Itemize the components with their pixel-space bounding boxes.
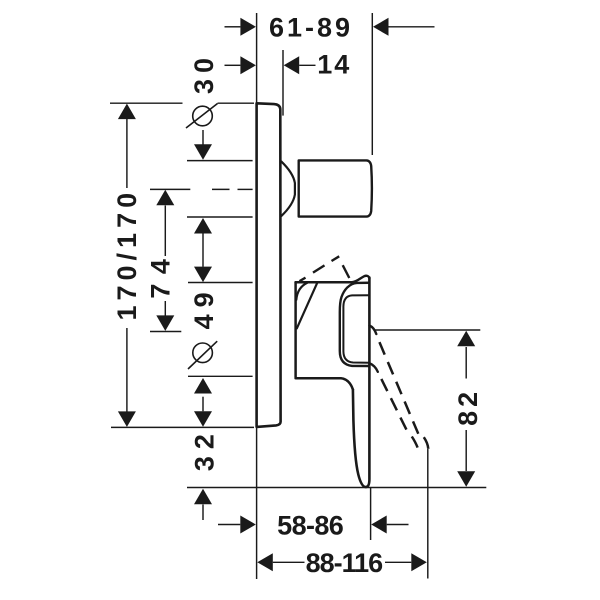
svg-text:82: 82 <box>453 388 483 426</box>
svg-text:170/170: 170/170 <box>112 188 142 321</box>
svg-text:32: 32 <box>190 427 220 471</box>
svg-text:14: 14 <box>317 50 351 80</box>
svg-text:58-86: 58-86 <box>277 511 344 541</box>
svg-text:30: 30 <box>189 52 219 94</box>
svg-text:49: 49 <box>189 285 219 329</box>
svg-text:88-116: 88-116 <box>306 548 384 578</box>
svg-text:61-89: 61-89 <box>269 13 353 43</box>
svg-text:74: 74 <box>146 250 176 299</box>
